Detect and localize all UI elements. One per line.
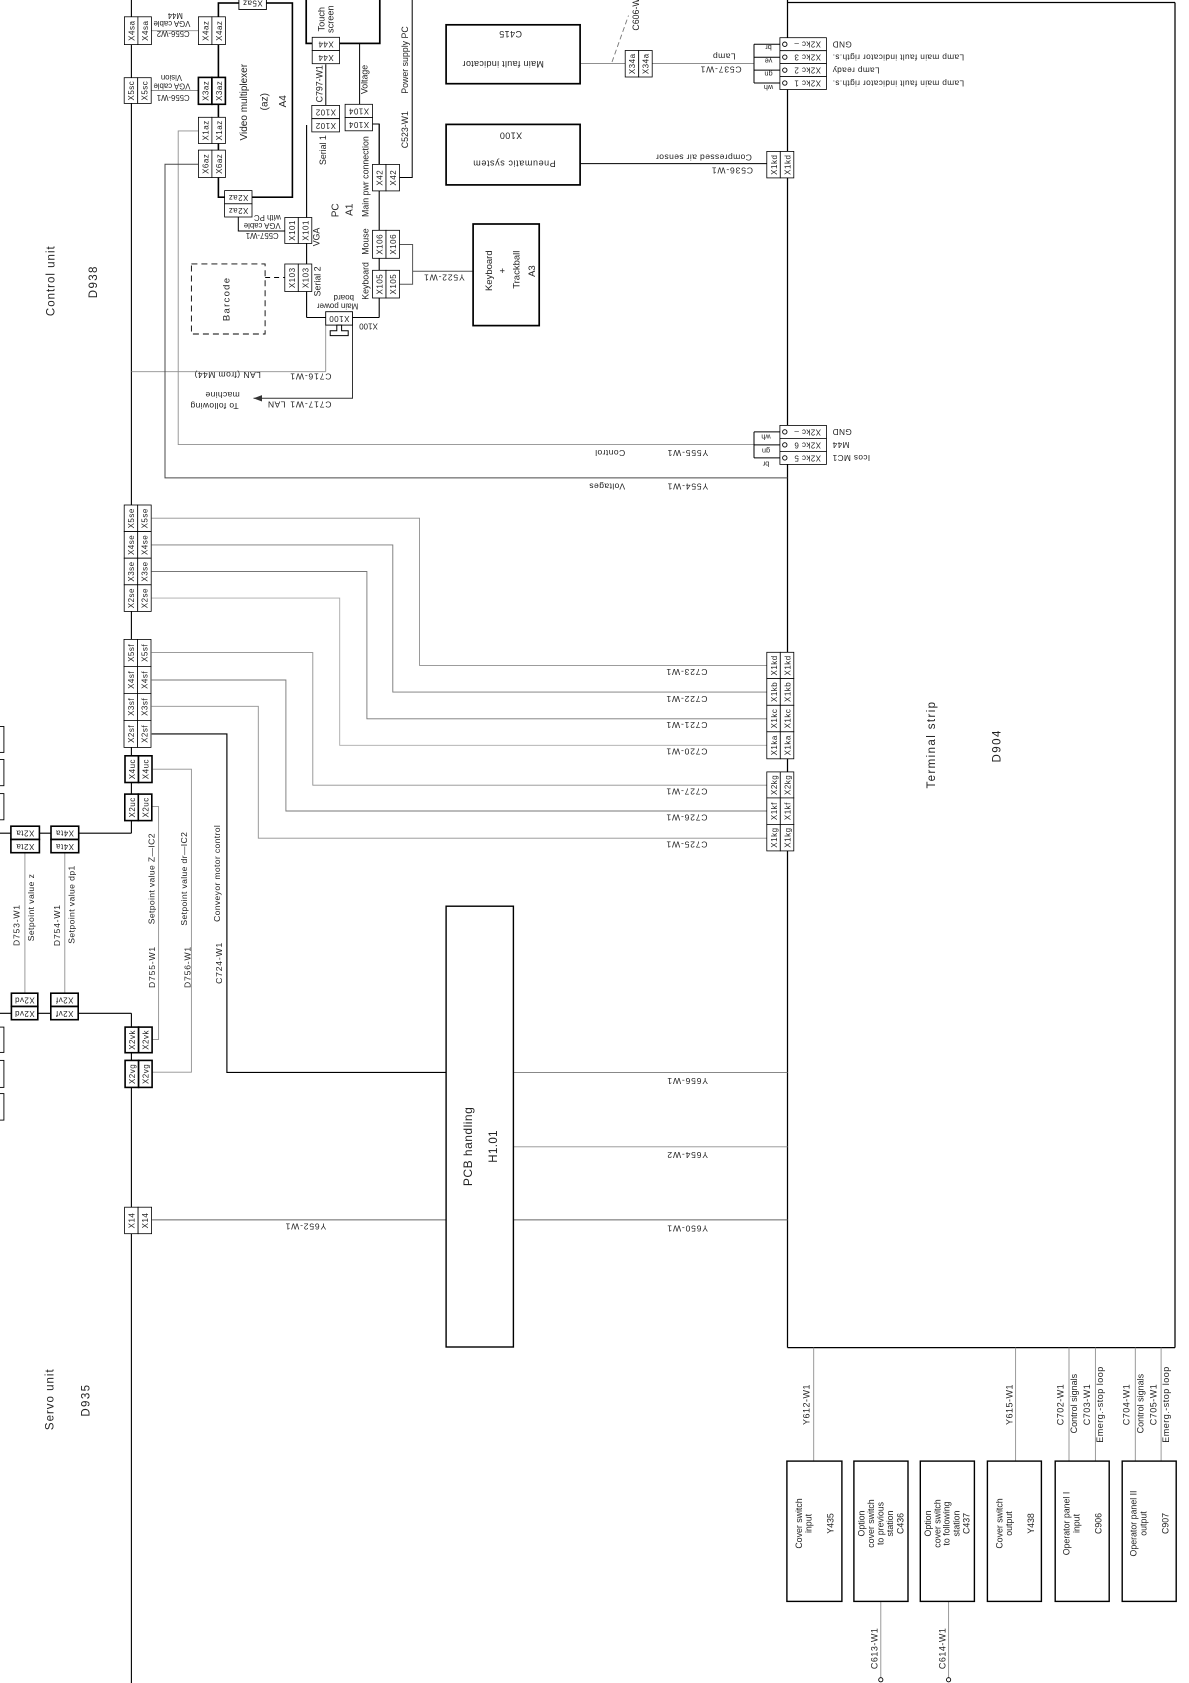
svg-text:X5sf: X5sf — [127, 644, 136, 662]
svg-text:PCB handling: PCB handling — [461, 1107, 475, 1186]
svg-text:D753-W1: D753-W1 — [12, 904, 22, 946]
svg-text:VGA cable: VGA cable — [153, 82, 190, 91]
svg-text:Option: Option — [923, 1510, 933, 1536]
svg-text:X3sf: X3sf — [141, 698, 150, 716]
svg-text:X106: X106 — [389, 234, 398, 255]
svg-text:Icos MC1: Icos MC1 — [832, 453, 870, 463]
svg-text:X5se: X5se — [127, 508, 136, 528]
svg-text:C613-W1: C613-W1 — [869, 1628, 879, 1670]
svg-text:wh: wh — [761, 433, 771, 442]
svg-text:C797-W1: C797-W1 — [314, 65, 324, 102]
svg-text:X4uc: X4uc — [128, 759, 137, 779]
svg-text:X100: X100 — [499, 130, 522, 140]
svg-text:C705-W1: C705-W1 — [1148, 1384, 1158, 1426]
svg-text:X6az: X6az — [215, 154, 224, 174]
svg-text:C907: C907 — [1161, 1513, 1171, 1534]
svg-text:X3az: X3az — [201, 81, 210, 101]
svg-text:C722-W1: C722-W1 — [666, 694, 708, 704]
svg-text:X2kc 6: X2kc 6 — [794, 440, 821, 449]
svg-text:machine: machine — [205, 390, 240, 400]
svg-text:Y522-W1: Y522-W1 — [423, 272, 464, 282]
svg-text:X2kg: X2kg — [783, 775, 792, 795]
svg-text:D754-W1: D754-W1 — [52, 904, 62, 946]
svg-text:X1kc: X1kc — [783, 709, 792, 729]
svg-text:X14: X14 — [128, 1213, 137, 1229]
svg-text:X4sa: X4sa — [141, 21, 150, 41]
svg-text:X2vd: X2vd — [14, 995, 34, 1004]
svg-text:X1kc: X1kc — [770, 709, 779, 729]
svg-text:C725-W1: C725-W1 — [666, 839, 708, 849]
svg-text:X101: X101 — [288, 220, 297, 241]
svg-text:Lamp: Lamp — [713, 51, 736, 61]
svg-text:X2kc 2: X2kc 2 — [794, 65, 821, 74]
svg-text:X1kf: X1kf — [783, 802, 792, 820]
svg-text:X5sf: X5sf — [141, 644, 150, 662]
svg-text:X14: X14 — [141, 1213, 150, 1229]
svg-text:A1: A1 — [345, 203, 356, 216]
svg-text:C727-W1: C727-W1 — [666, 786, 708, 796]
svg-text:Control signals: Control signals — [1069, 1373, 1079, 1433]
svg-text:M44: M44 — [832, 440, 849, 450]
svg-text:wh: wh — [764, 83, 774, 92]
svg-text:VGA cable: VGA cable — [244, 221, 281, 230]
svg-text:X3se: X3se — [127, 561, 136, 581]
svg-text:X1az: X1az — [201, 120, 210, 140]
svg-text:A4: A4 — [278, 95, 289, 108]
svg-text:Emerg.-stop loop: Emerg.-stop loop — [1095, 1366, 1105, 1443]
svg-text:Servo unit: Servo unit — [45, 1368, 57, 1430]
svg-text:PC: PC — [330, 203, 341, 217]
svg-text:D935: D935 — [81, 1384, 93, 1417]
svg-text:+: + — [497, 267, 508, 273]
svg-text:X100: X100 — [329, 314, 350, 323]
svg-text:Y652-W1: Y652-W1 — [285, 1222, 326, 1232]
svg-text:Operator panel I: Operator panel I — [1062, 1492, 1072, 1556]
svg-text:Trackball: Trackball — [511, 251, 522, 289]
svg-text:C556-W1: C556-W1 — [157, 93, 190, 102]
svg-text:X2se: X2se — [127, 588, 136, 608]
svg-text:output: output — [1004, 1511, 1014, 1536]
svg-text:X105: X105 — [376, 274, 385, 295]
svg-text:X101: X101 — [301, 220, 310, 241]
svg-text:Cover switch: Cover switch — [794, 1498, 804, 1548]
svg-text:Lamp ready: Lamp ready — [832, 65, 880, 75]
svg-text:with PC: with PC — [254, 213, 282, 222]
svg-text:X2uc: X2uc — [141, 797, 150, 817]
svg-text:Mouse: Mouse — [360, 228, 370, 255]
svg-text:X1kf: X1kf — [770, 802, 779, 820]
svg-text:VGA: VGA — [312, 228, 322, 247]
svg-text:X44: X44 — [318, 40, 334, 49]
svg-text:X2sf: X2sf — [127, 725, 136, 743]
svg-text:Y615-W1: Y615-W1 — [1004, 1384, 1014, 1425]
svg-text:X1ka: X1ka — [783, 735, 792, 755]
svg-text:C614-W1: C614-W1 — [937, 1628, 947, 1670]
svg-text:D938: D938 — [88, 265, 100, 298]
svg-text:A3: A3 — [527, 265, 538, 277]
svg-text:Setpoint value Z—IC2: Setpoint value Z—IC2 — [146, 833, 156, 924]
svg-text:Lamp main fault indicator rigt: Lamp main fault indicator rigth.s. — [832, 78, 964, 88]
svg-text:Y438: Y438 — [1026, 1513, 1036, 1534]
svg-text:Emerg.-stop loop: Emerg.-stop loop — [1161, 1366, 1171, 1443]
svg-text:Cover switch: Cover switch — [994, 1498, 1004, 1548]
svg-text:Serial 2: Serial 2 — [312, 266, 322, 296]
svg-text:X100: X100 — [359, 321, 378, 330]
svg-text:X4se: X4se — [141, 535, 150, 555]
svg-text:M44: M44 — [167, 11, 183, 20]
svg-text:C726-W1: C726-W1 — [666, 812, 708, 822]
svg-text:X102: X102 — [315, 108, 336, 117]
svg-text:to following: to following — [942, 1501, 952, 1545]
svg-text:Vision: Vision — [161, 73, 182, 82]
svg-text:X4sf: X4sf — [127, 671, 136, 689]
svg-text:C703-W1: C703-W1 — [1082, 1384, 1092, 1426]
svg-text:C720-W1: C720-W1 — [666, 747, 708, 757]
svg-text:output: output — [1139, 1511, 1149, 1536]
svg-text:X1kd: X1kd — [770, 655, 779, 675]
svg-text:LAN: LAN — [268, 400, 286, 410]
svg-text:Y555-W1: Y555-W1 — [667, 448, 708, 458]
svg-text:X6az: X6az — [201, 154, 210, 174]
svg-text:To following: To following — [190, 401, 239, 411]
svg-text:X4ta: X4ta — [56, 828, 75, 837]
svg-text:Lamp main fault indicator rigt: Lamp main fault indicator rigth.s. — [832, 52, 964, 62]
svg-text:X103: X103 — [301, 267, 310, 288]
svg-text:br: br — [762, 460, 769, 469]
svg-text:X2vf: X2vf — [55, 995, 73, 1004]
svg-text:VGA cable: VGA cable — [153, 19, 190, 28]
svg-text:X2vg: X2vg — [142, 1064, 151, 1084]
svg-text:Setpoint value dr—IC2: Setpoint value dr—IC2 — [179, 832, 189, 926]
svg-text:Control signals: Control signals — [1135, 1373, 1145, 1433]
svg-text:Compressed air sensor: Compressed air sensor — [656, 152, 752, 162]
svg-text:X4sf: X4sf — [141, 671, 150, 689]
svg-text:Main power: Main power — [317, 302, 359, 311]
svg-text:C556-W2: C556-W2 — [157, 29, 190, 38]
svg-text:input: input — [1072, 1513, 1082, 1533]
svg-text:X5se: X5se — [141, 508, 150, 528]
svg-text:X4az: X4az — [201, 21, 210, 41]
svg-text:X4sa: X4sa — [127, 21, 136, 41]
svg-text:GND: GND — [832, 427, 852, 437]
svg-text:br: br — [765, 43, 772, 52]
svg-text:X42: X42 — [376, 170, 385, 186]
svg-text:Y554-W1: Y554-W1 — [667, 482, 708, 492]
svg-text:(az): (az) — [259, 93, 270, 110]
svg-text:board: board — [334, 293, 354, 302]
svg-text:D755-W1: D755-W1 — [147, 946, 157, 988]
svg-text:to previous: to previous — [875, 1501, 885, 1545]
svg-text:Voltage: Voltage — [360, 65, 370, 94]
svg-text:X1ka: X1ka — [770, 735, 779, 755]
svg-text:Terminal strip: Terminal strip — [926, 701, 938, 789]
svg-text:X2sf: X2sf — [141, 725, 150, 743]
svg-text:input: input — [804, 1513, 814, 1533]
svg-text:Option: Option — [856, 1510, 866, 1536]
svg-text:X1kb: X1kb — [783, 682, 792, 702]
svg-text:C536-W1: C536-W1 — [711, 165, 753, 175]
svg-text:Pneumatic system: Pneumatic system — [473, 159, 556, 169]
svg-text:X102: X102 — [315, 121, 336, 130]
svg-text:X3az: X3az — [215, 81, 224, 101]
svg-text:Setpoint value dp1: Setpoint value dp1 — [66, 865, 76, 943]
svg-text:C415: C415 — [499, 29, 522, 39]
svg-text:ye: ye — [765, 56, 773, 65]
svg-text:X104: X104 — [348, 107, 369, 116]
svg-text:Conveyor motor control: Conveyor motor control — [212, 825, 222, 922]
svg-text:station: station — [951, 1510, 961, 1536]
svg-text:Main fault indicator: Main fault indicator — [462, 59, 544, 69]
svg-text:X2kc 1: X2kc 1 — [794, 78, 821, 87]
svg-text:Control: Control — [595, 448, 626, 458]
svg-text:X44: X44 — [318, 53, 334, 62]
svg-text:X2se: X2se — [141, 588, 150, 608]
svg-text:Y656-W1: Y656-W1 — [667, 1076, 708, 1086]
svg-text:X1kd: X1kd — [783, 655, 792, 675]
svg-text:X42: X42 — [389, 170, 398, 186]
svg-text:X5sc: X5sc — [141, 81, 150, 101]
svg-text:C523-W1: C523-W1 — [400, 111, 410, 148]
svg-text:X2kc 5: X2kc 5 — [794, 453, 821, 462]
svg-text:X2vd: X2vd — [14, 1009, 34, 1018]
svg-text:X2kc 3: X2kc 3 — [794, 52, 821, 61]
svg-text:X1az: X1az — [215, 120, 224, 140]
svg-text:Operator panel II: Operator panel II — [1129, 1490, 1139, 1556]
svg-text:X1kg: X1kg — [783, 827, 792, 847]
svg-text:X4ta: X4ta — [56, 842, 75, 851]
svg-text:Main pwr connection: Main pwr connection — [361, 136, 371, 217]
svg-text:X2vg: X2vg — [128, 1064, 137, 1084]
svg-text:Barcode: Barcode — [221, 277, 232, 321]
svg-text:X2vk: X2vk — [128, 1030, 137, 1050]
svg-text:Keyboard: Keyboard — [360, 262, 370, 300]
svg-text:C702-W1: C702-W1 — [1055, 1384, 1065, 1426]
svg-text:Keyboard: Keyboard — [484, 250, 495, 291]
svg-text:X106: X106 — [376, 234, 385, 255]
svg-text:Voltages: Voltages — [589, 482, 625, 492]
svg-text:X2vf: X2vf — [55, 1009, 73, 1018]
svg-text:Y612-W1: Y612-W1 — [802, 1384, 812, 1425]
svg-text:X4az: X4az — [215, 21, 224, 41]
svg-text:C724-W1: C724-W1 — [214, 942, 224, 984]
svg-text:C716-W1: C716-W1 — [290, 372, 332, 382]
svg-text:C437: C437 — [962, 1513, 972, 1534]
svg-text:X105: X105 — [389, 274, 398, 295]
svg-text:X1kg: X1kg — [770, 827, 779, 847]
svg-text:X2kc –: X2kc – — [794, 40, 821, 49]
svg-text:X104: X104 — [348, 120, 369, 129]
svg-text:C717-W1: C717-W1 — [290, 400, 332, 410]
svg-text:C436: C436 — [895, 1513, 905, 1534]
svg-text:Y435: Y435 — [826, 1513, 836, 1534]
svg-text:D756-W1: D756-W1 — [182, 946, 192, 988]
svg-text:X5sc: X5sc — [127, 81, 136, 101]
svg-text:X2az: X2az — [228, 206, 248, 215]
svg-text:X2kg: X2kg — [770, 775, 779, 795]
svg-text:D904: D904 — [992, 729, 1004, 763]
svg-text:gn: gn — [762, 447, 770, 456]
svg-text:station: station — [885, 1510, 895, 1536]
svg-text:Y650-W1: Y650-W1 — [667, 1224, 708, 1234]
svg-text:C723-W1: C723-W1 — [666, 667, 708, 677]
svg-text:X34a: X34a — [642, 53, 651, 74]
svg-text:X2az: X2az — [228, 193, 248, 202]
svg-text:X2kc –: X2kc – — [794, 427, 821, 436]
svg-text:X2uc: X2uc — [128, 797, 137, 817]
svg-text:C906: C906 — [1094, 1513, 1104, 1534]
svg-text:Serial 1: Serial 1 — [318, 135, 328, 165]
svg-text:GND: GND — [832, 39, 852, 49]
svg-text:X1kb: X1kb — [770, 682, 779, 702]
svg-text:LAN (from M44): LAN (from M44) — [194, 370, 261, 380]
svg-text:Setpoint value z: Setpoint value z — [26, 874, 36, 942]
svg-text:X5az: X5az — [242, 0, 262, 8]
svg-text:X3se: X3se — [141, 561, 150, 581]
svg-text:gn: gn — [764, 70, 772, 79]
svg-text:X2ta: X2ta — [16, 842, 35, 851]
svg-text:screen: screen — [325, 5, 335, 33]
svg-text:Control unit: Control unit — [46, 245, 58, 316]
svg-text:X34a: X34a — [628, 53, 637, 74]
svg-text:X1kd: X1kd — [783, 155, 792, 175]
svg-text:X2ta: X2ta — [16, 828, 35, 837]
svg-text:C537-W1: C537-W1 — [700, 65, 742, 75]
svg-text:H1.01: H1.01 — [488, 1130, 500, 1163]
svg-text:X2vk: X2vk — [142, 1030, 151, 1050]
svg-text:Y654-W2: Y654-W2 — [667, 1150, 708, 1160]
svg-text:X4uc: X4uc — [142, 759, 151, 779]
svg-text:Power supply PC: Power supply PC — [400, 26, 410, 94]
svg-text:X4se: X4se — [127, 535, 136, 555]
svg-text:X1kd: X1kd — [770, 155, 779, 175]
svg-text:Video multiplexer: Video multiplexer — [239, 63, 250, 140]
svg-text:C557-W1: C557-W1 — [246, 231, 279, 240]
svg-text:X3sf: X3sf — [127, 698, 136, 716]
svg-text:C721-W1: C721-W1 — [666, 720, 708, 730]
svg-text:C606-W1: C606-W1 — [631, 0, 641, 31]
svg-text:C704-W1: C704-W1 — [1122, 1384, 1132, 1426]
svg-text:X103: X103 — [288, 267, 297, 288]
